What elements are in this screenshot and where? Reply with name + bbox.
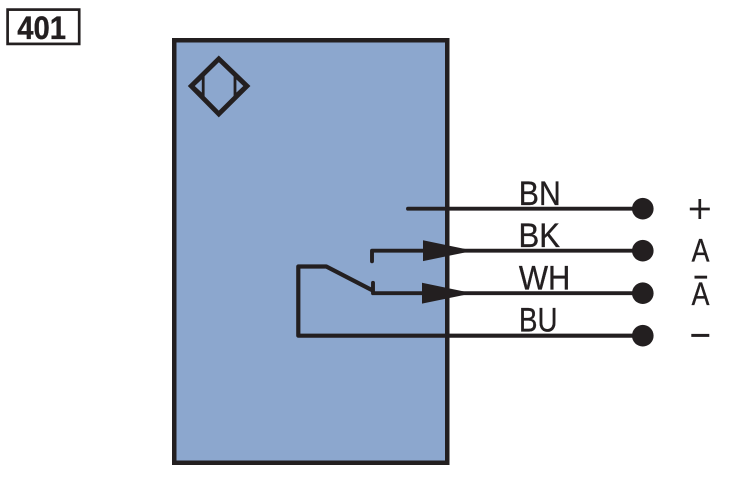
wire BN xyxy=(408,207,642,211)
logo right triangle xyxy=(235,76,245,96)
minus terminal symbol xyxy=(691,334,709,337)
svg-text:A: A xyxy=(692,276,710,312)
sensor body xyxy=(174,40,447,463)
svg-text:A: A xyxy=(692,233,710,269)
terminal dot BK xyxy=(632,240,654,262)
terminal dot WH xyxy=(632,282,654,304)
logo left triangle xyxy=(193,76,204,96)
sensor logo diamond xyxy=(191,59,247,114)
svg-text:BN: BN xyxy=(519,175,561,213)
svg-text:BU: BU xyxy=(519,302,558,340)
arrow on BK output xyxy=(423,240,474,261)
switch lever and wire BU xyxy=(298,267,642,336)
svg-text:401: 401 xyxy=(17,9,66,46)
terminal dot BU xyxy=(632,325,654,347)
plus terminal symbol xyxy=(690,199,710,219)
figure number box 401 xyxy=(8,10,80,44)
wire BK with contact stub xyxy=(372,251,642,262)
svg-text:WH: WH xyxy=(519,259,571,297)
A-bar overline xyxy=(695,276,708,279)
terminal dot BN xyxy=(632,198,654,220)
arrow on WH output xyxy=(422,283,473,304)
svg-text:BK: BK xyxy=(519,217,561,255)
wire WH with contact stub xyxy=(373,283,642,293)
